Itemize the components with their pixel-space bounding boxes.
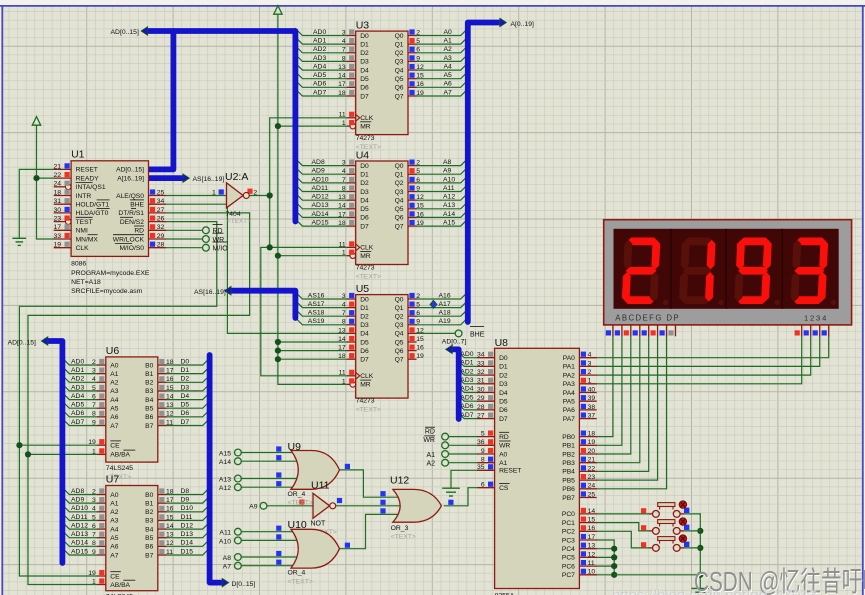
svg-text:14: 14 xyxy=(338,203,346,210)
svg-text:AD0: AD0 xyxy=(313,29,326,36)
svg-text:8: 8 xyxy=(342,319,346,326)
junction PC7 tie xyxy=(611,572,617,578)
svg-text:D6: D6 xyxy=(360,348,369,355)
wire power to U4 MR xyxy=(278,255,347,257)
svg-text:D5: D5 xyxy=(360,206,369,213)
svg-text:Q2: Q2 xyxy=(395,314,404,321)
svg-text:D7: D7 xyxy=(181,419,190,426)
svg-text:A3: A3 xyxy=(444,55,453,62)
svg-text:6: 6 xyxy=(481,482,485,489)
svg-text:2: 2 xyxy=(416,293,420,300)
svg-text:OR_4: OR_4 xyxy=(288,491,306,498)
svg-text:A10: A10 xyxy=(443,176,455,183)
svg-text:AD10: AD10 xyxy=(312,176,329,183)
svg-text:AD11: AD11 xyxy=(71,514,88,521)
svg-text:A0: A0 xyxy=(110,362,118,369)
svg-text:12: 12 xyxy=(166,411,174,418)
svg-text:D0: D0 xyxy=(360,163,369,170)
svg-text:16: 16 xyxy=(416,211,424,218)
svg-text:PA7: PA7 xyxy=(563,416,575,423)
svg-text:Q1: Q1 xyxy=(395,305,404,312)
svg-text:18: 18 xyxy=(54,189,62,196)
svg-text:A1: A1 xyxy=(110,371,118,378)
svg-text:28: 28 xyxy=(157,242,165,249)
svg-text:B6: B6 xyxy=(145,414,153,421)
state square SW3 right xyxy=(684,542,689,547)
state square U12 output xyxy=(448,500,453,505)
svg-text:12: 12 xyxy=(166,540,174,547)
or-gate U9 xyxy=(291,451,340,490)
ground at U1 RESET xyxy=(12,237,26,239)
svg-text:A12: A12 xyxy=(443,194,455,201)
svg-text:D12: D12 xyxy=(181,522,194,529)
svg-text:9: 9 xyxy=(92,549,96,556)
svg-text:13: 13 xyxy=(588,543,596,550)
terminal A2 at U8 xyxy=(442,459,449,466)
svg-text:30: 30 xyxy=(477,386,485,393)
svg-text:D7: D7 xyxy=(360,357,369,364)
svg-text:RESET: RESET xyxy=(76,167,98,174)
svg-text:<TEXT>: <TEXT> xyxy=(356,274,381,281)
svg-text:RD: RD xyxy=(134,228,144,235)
svg-text:AD4: AD4 xyxy=(71,393,84,400)
svg-text:AD13: AD13 xyxy=(71,531,88,538)
svg-text:CE: CE xyxy=(110,573,120,580)
svg-text:33: 33 xyxy=(477,360,485,367)
svg-text:ABCDEFG DP: ABCDEFG DP xyxy=(615,313,680,322)
svg-text:D3: D3 xyxy=(499,381,508,388)
wire buttons common vertical xyxy=(699,514,701,589)
svg-text:AB/BA: AB/BA xyxy=(110,582,130,589)
svg-text:<TEXT>: <TEXT> xyxy=(288,578,313,585)
svg-text:8: 8 xyxy=(342,185,346,192)
svg-text:CLK: CLK xyxy=(360,373,374,380)
svg-text:36: 36 xyxy=(477,439,485,446)
svg-text:ALE/QS0: ALE/QS0 xyxy=(116,193,144,200)
svg-text:D3: D3 xyxy=(360,189,369,196)
svg-text:15: 15 xyxy=(416,203,424,210)
svg-text:Q6: Q6 xyxy=(395,348,404,355)
svg-text:13: 13 xyxy=(166,532,174,539)
svg-text:D5: D5 xyxy=(360,76,369,83)
svg-text:PC5: PC5 xyxy=(562,555,575,562)
svg-text:PB5: PB5 xyxy=(562,477,575,484)
chip U3 74273 latch xyxy=(338,20,424,152)
svg-text:AS[16..19]: AS[16..19] xyxy=(193,176,225,183)
svg-text:26: 26 xyxy=(157,216,165,223)
svg-text:D1: D1 xyxy=(360,305,369,312)
CSDN watermark line 1 xyxy=(694,560,865,595)
svg-text:8: 8 xyxy=(342,55,346,62)
svg-text:PA1: PA1 xyxy=(563,364,575,371)
svg-text:D[0..15]: D[0..15] xyxy=(232,581,256,588)
svg-text:35: 35 xyxy=(477,464,485,471)
bus D[0..15] xyxy=(210,355,223,583)
svg-text:18: 18 xyxy=(338,90,346,97)
svg-text:D1: D1 xyxy=(181,367,190,374)
svg-text:A9: A9 xyxy=(249,504,258,511)
svg-text:32: 32 xyxy=(477,369,485,376)
svg-text:Q5: Q5 xyxy=(395,206,404,213)
svg-text:A14: A14 xyxy=(443,211,455,218)
svg-text:AD15: AD15 xyxy=(71,548,88,555)
svg-text:A[16..19]: A[16..19] xyxy=(117,175,144,182)
svg-text:8: 8 xyxy=(92,540,96,547)
svg-text:RD: RD xyxy=(499,434,509,441)
svg-text:AD8: AD8 xyxy=(71,488,84,495)
svg-text:14: 14 xyxy=(338,73,346,80)
svg-text:15: 15 xyxy=(416,73,424,80)
svg-text:Q4: Q4 xyxy=(395,197,404,204)
svg-text:13: 13 xyxy=(338,64,346,71)
wire U8 PC0 to button SW1 xyxy=(597,513,649,515)
svg-text:B4: B4 xyxy=(145,526,153,533)
svg-text:15: 15 xyxy=(588,517,596,524)
svg-text:34: 34 xyxy=(477,352,485,359)
svg-text:2: 2 xyxy=(416,160,420,167)
svg-text:DEN/S2: DEN/S2 xyxy=(120,219,144,226)
svg-text:6: 6 xyxy=(416,47,420,54)
junction DEN at U6 xyxy=(16,442,22,448)
svg-text:29: 29 xyxy=(157,233,165,240)
wires bus entries AD8-AD15 to U4 xyxy=(295,159,347,227)
wire U1 RD to terminal xyxy=(166,229,203,231)
svg-text:BHE: BHE xyxy=(470,332,485,339)
svg-text:12: 12 xyxy=(416,327,424,334)
terminal RD at U1 xyxy=(203,227,210,234)
svg-text:U7: U7 xyxy=(106,474,120,486)
state square U2:A output xyxy=(247,189,252,194)
svg-text:Q7: Q7 xyxy=(395,357,404,364)
junction buttons SW3 xyxy=(697,545,703,551)
state square U11 output xyxy=(337,498,342,503)
svg-text:AS[16..19]: AS[16..19] xyxy=(194,289,226,296)
svg-text:D13: D13 xyxy=(181,531,194,538)
svg-text:D4: D4 xyxy=(181,393,190,400)
svg-text:19: 19 xyxy=(54,242,62,249)
svg-text:13: 13 xyxy=(338,194,346,201)
svg-text:D5: D5 xyxy=(181,402,190,409)
svg-text:PA6: PA6 xyxy=(563,407,575,414)
state square SW2 left xyxy=(641,525,646,530)
junction power/U5D6 xyxy=(275,348,281,354)
svg-text:19: 19 xyxy=(416,353,424,360)
svg-text:A7: A7 xyxy=(110,552,118,559)
svg-text:CLK: CLK xyxy=(360,115,374,122)
svg-text:19: 19 xyxy=(88,570,96,577)
svg-text:AB/BA: AB/BA xyxy=(110,452,130,459)
svg-text:WR: WR xyxy=(499,443,510,450)
svg-text:19: 19 xyxy=(88,439,96,446)
svg-text:16: 16 xyxy=(166,506,174,513)
svg-text:74273: 74273 xyxy=(356,398,375,405)
svg-text:AD1: AD1 xyxy=(313,38,326,45)
svg-text:A11: A11 xyxy=(443,185,455,192)
svg-text:HOLD/GT1: HOLD/GT1 xyxy=(76,202,110,209)
wires U8 PA0-PA3 to display digit pins xyxy=(597,336,829,384)
wire ALE to U4 CLK xyxy=(270,246,347,248)
wire SW2 right to rail xyxy=(684,530,701,532)
svg-text:PC3: PC3 xyxy=(562,537,575,544)
svg-text:8: 8 xyxy=(481,457,485,464)
svg-text:Q1: Q1 xyxy=(395,172,404,179)
svg-text:A5: A5 xyxy=(444,72,453,79)
svg-text:PB7: PB7 xyxy=(562,495,575,502)
wire ALE to U5 CLK xyxy=(261,247,347,375)
junction power/READY xyxy=(33,175,39,181)
svg-text:17: 17 xyxy=(166,497,174,504)
svg-text:18: 18 xyxy=(166,488,174,495)
svg-text:19: 19 xyxy=(416,90,424,97)
state square SW1 right xyxy=(684,508,689,513)
svg-text:AS19: AS19 xyxy=(308,318,325,325)
svg-text:AD4: AD4 xyxy=(460,386,473,393)
bus AD[0..15] at U6/U7 xyxy=(47,341,63,563)
svg-text:3: 3 xyxy=(342,293,346,300)
svg-text:D3: D3 xyxy=(360,322,369,329)
svg-text:B7: B7 xyxy=(145,423,153,430)
svg-text:U8: U8 xyxy=(495,337,509,349)
svg-text:<TEXT>: <TEXT> xyxy=(227,218,251,225)
svg-text:B5: B5 xyxy=(145,535,153,542)
wires bus entries AD0-AD7 to U8 xyxy=(459,351,478,419)
svg-text:AD5: AD5 xyxy=(313,72,326,79)
svg-text:A6: A6 xyxy=(444,81,453,88)
svg-text:Q7: Q7 xyxy=(395,93,404,100)
svg-text:B6: B6 xyxy=(145,544,153,551)
svg-text:PB6: PB6 xyxy=(562,486,575,493)
svg-text:A6: A6 xyxy=(110,414,118,421)
svg-text:PC1: PC1 xyxy=(562,520,575,527)
junction power/U4MR xyxy=(275,253,281,259)
svg-text:Q4: Q4 xyxy=(395,331,404,338)
svg-text:11: 11 xyxy=(339,112,346,119)
svg-text:A2: A2 xyxy=(426,461,435,468)
svg-text:A4: A4 xyxy=(444,63,453,70)
svg-text:8086: 8086 xyxy=(71,261,86,268)
svg-text:2: 2 xyxy=(253,189,257,196)
svg-text:<TEXT>: <TEXT> xyxy=(288,500,313,507)
svg-text:17: 17 xyxy=(338,211,346,218)
svg-text:1: 1 xyxy=(342,120,346,127)
wire U8 PC4 tie xyxy=(597,548,615,550)
chip U7 74LS245 transceiver xyxy=(88,474,174,595)
junction PC4 tie xyxy=(611,546,617,552)
svg-text:AD1: AD1 xyxy=(71,367,84,374)
svg-text:32: 32 xyxy=(157,224,165,231)
svg-text:7404: 7404 xyxy=(226,211,241,218)
wire U2:A output to junction xyxy=(250,195,270,197)
svg-text:D15: D15 xyxy=(181,548,194,555)
svg-text:16: 16 xyxy=(416,81,424,88)
wire U11 output to U12 xyxy=(336,505,402,507)
svg-text:AD4: AD4 xyxy=(313,63,326,70)
svg-text:16: 16 xyxy=(166,376,174,383)
svg-text:U9: U9 xyxy=(288,441,302,453)
button SW2 xyxy=(649,518,687,534)
svg-text:14: 14 xyxy=(166,393,174,400)
wire U8 PC1 to button SW2 xyxy=(597,523,649,531)
svg-text:DT/R/S1: DT/R/S1 xyxy=(118,210,144,217)
state squares U9 inputs xyxy=(276,446,281,451)
wire U1 WR to terminal xyxy=(166,238,203,240)
svg-text:16: 16 xyxy=(588,525,596,532)
svg-text:D4: D4 xyxy=(360,331,369,338)
svg-text:AD7: AD7 xyxy=(313,89,326,96)
junction buttons SW2 xyxy=(697,528,703,534)
svg-text:AD9: AD9 xyxy=(312,168,325,175)
svg-text:A14: A14 xyxy=(219,459,231,466)
CSDN watermark line 2 (clipped URL) xyxy=(612,587,830,595)
svg-text:AD13: AD13 xyxy=(312,202,329,209)
svg-text:D9: D9 xyxy=(181,497,190,504)
svg-text:23: 23 xyxy=(54,216,62,223)
svg-text:MR: MR xyxy=(360,382,371,389)
svg-text:A6: A6 xyxy=(110,544,118,551)
svg-text:B3: B3 xyxy=(145,388,153,395)
svg-text:1: 1 xyxy=(342,250,346,257)
wire power to U5 D5 xyxy=(278,341,347,343)
wire SW3 right to rail xyxy=(684,547,701,549)
svg-text:B7: B7 xyxy=(145,552,153,559)
wires bus entries AD8-AD15 to U7 xyxy=(62,488,97,556)
svg-text:A3: A3 xyxy=(110,518,118,525)
svg-text:AD6: AD6 xyxy=(460,403,473,410)
svg-text:Q1: Q1 xyxy=(395,41,404,48)
svg-text:PA5: PA5 xyxy=(563,399,575,406)
svg-text:1: 1 xyxy=(342,378,346,385)
terminal BHE xyxy=(455,330,462,337)
svg-text:17: 17 xyxy=(54,224,62,231)
svg-text:Q5: Q5 xyxy=(395,76,404,83)
svg-text:A18: A18 xyxy=(439,310,451,317)
svg-text:AD2: AD2 xyxy=(460,368,473,375)
wire U1 DT/R to U6/U7 AB/BA xyxy=(28,213,250,585)
svg-text:1234: 1234 xyxy=(804,313,828,322)
svg-text:6: 6 xyxy=(92,393,96,400)
svg-text:11: 11 xyxy=(339,241,346,248)
svg-text:PROGRAM=mycode.EXE: PROGRAM=mycode.EXE xyxy=(71,270,150,277)
svg-text:PA4: PA4 xyxy=(563,390,575,397)
svg-text:RESET: RESET xyxy=(499,468,521,475)
svg-text:Q2: Q2 xyxy=(395,180,404,187)
svg-text:MN/MX: MN/MX xyxy=(76,236,99,243)
svg-text:5: 5 xyxy=(416,38,420,45)
svg-text:D4: D4 xyxy=(360,67,369,74)
svg-text:5: 5 xyxy=(481,431,485,438)
svg-text:B1: B1 xyxy=(145,371,153,378)
svg-text:AD6: AD6 xyxy=(313,81,326,88)
state square SW1 left xyxy=(641,508,646,513)
svg-text:D10: D10 xyxy=(181,505,194,512)
svg-text:D1: D1 xyxy=(360,172,369,179)
svg-text:A15: A15 xyxy=(443,219,455,226)
svg-text:PC6: PC6 xyxy=(562,563,575,570)
svg-text:5: 5 xyxy=(92,514,96,521)
svg-text:NOT: NOT xyxy=(311,521,327,528)
sheet border frame xyxy=(0,5,865,7)
svg-text:19: 19 xyxy=(588,439,596,446)
svg-text:B1: B1 xyxy=(145,500,153,507)
ground at buttons xyxy=(692,587,710,589)
svg-text:14: 14 xyxy=(166,523,174,530)
svg-text:D0: D0 xyxy=(360,296,369,303)
svg-text:37: 37 xyxy=(588,413,596,420)
svg-text:17: 17 xyxy=(588,534,596,541)
svg-text:Q6: Q6 xyxy=(395,85,404,92)
svg-text:1: 1 xyxy=(92,578,96,585)
svg-text:A15: A15 xyxy=(219,450,231,457)
svg-text:D4: D4 xyxy=(499,390,508,397)
svg-text:A13: A13 xyxy=(443,202,455,209)
svg-text:12: 12 xyxy=(588,551,596,558)
svg-text:3: 3 xyxy=(92,497,96,504)
svg-text:18: 18 xyxy=(338,353,346,360)
svg-text:38: 38 xyxy=(588,404,596,411)
not-gate U2:A 7404 xyxy=(227,183,244,208)
svg-text:INTA/QS1: INTA/QS1 xyxy=(76,184,106,191)
svg-text:15: 15 xyxy=(416,336,424,343)
svg-text:U11: U11 xyxy=(311,479,330,491)
svg-text:U2:A: U2:A xyxy=(225,171,248,183)
svg-text:A3: A3 xyxy=(110,388,118,395)
wires+terminals A11 A10 A8 A7 to U10 xyxy=(219,528,303,570)
svg-text:U1: U1 xyxy=(71,149,85,161)
not-gate U11 xyxy=(313,493,330,518)
svg-text:AD9: AD9 xyxy=(71,497,84,504)
svg-text:7: 7 xyxy=(342,47,346,54)
svg-text:U3: U3 xyxy=(356,20,370,32)
svg-text:A7: A7 xyxy=(444,89,453,96)
svg-text:PB1: PB1 xyxy=(562,443,575,450)
svg-text:1: 1 xyxy=(588,378,592,385)
svg-text:1: 1 xyxy=(92,448,96,455)
terminal WR at U1 xyxy=(203,236,210,243)
svg-text:18: 18 xyxy=(338,220,346,227)
svg-text:AD[0..15]: AD[0..15] xyxy=(8,339,36,346)
wires+terminals A15 A14 A13 A12 to U9 xyxy=(219,449,303,492)
svg-text:8: 8 xyxy=(92,411,96,418)
chip U1 8086 CPU xyxy=(54,149,166,296)
svg-text:27: 27 xyxy=(157,207,165,214)
svg-text:3: 3 xyxy=(92,368,96,375)
terminal M/IO at U1 xyxy=(203,244,210,251)
bus arrow A[0..19] xyxy=(500,18,506,26)
svg-text:A9: A9 xyxy=(443,168,452,175)
svg-text:D7: D7 xyxy=(360,223,369,230)
wires U3 outputs A0-A7 to A bus xyxy=(417,29,468,97)
svg-text:12: 12 xyxy=(416,194,424,201)
wire power to U5 D6 xyxy=(278,350,347,352)
wire power to U5 D7 xyxy=(278,358,347,360)
svg-text:Q3: Q3 xyxy=(395,322,404,329)
svg-text:A7: A7 xyxy=(110,423,118,430)
svg-text:A17: A17 xyxy=(439,301,451,308)
svg-text:D0: D0 xyxy=(360,33,369,40)
bus AS[16..19] at U5 xyxy=(230,291,295,318)
svg-text:PC7: PC7 xyxy=(562,572,575,579)
wires U6 outputs D0-D7 to D bus xyxy=(166,358,209,426)
svg-text:6: 6 xyxy=(416,310,420,317)
svg-text:AD[0..15]: AD[0..15] xyxy=(111,29,139,36)
svg-text:AD3: AD3 xyxy=(71,384,84,391)
wire power rail to U3 MR xyxy=(278,125,347,127)
bus A[0..19] (right) xyxy=(468,23,501,323)
state square U10 output xyxy=(345,543,350,548)
svg-text:MR: MR xyxy=(360,123,371,130)
svg-text:13: 13 xyxy=(338,327,346,334)
svg-text:9: 9 xyxy=(416,185,420,192)
